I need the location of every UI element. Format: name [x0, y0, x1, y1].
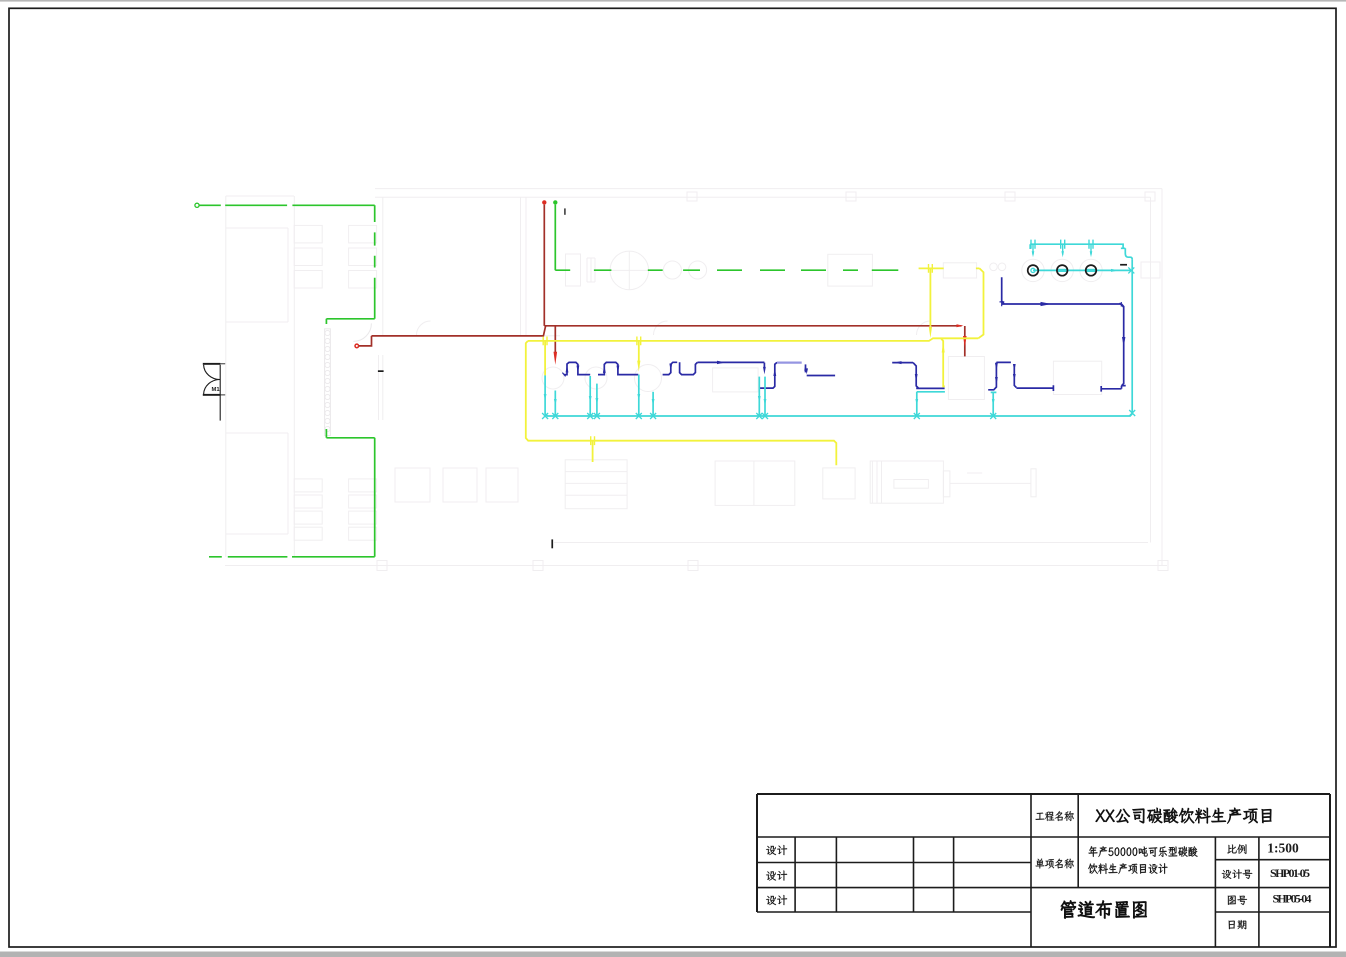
- navy plateau arrow: [717, 361, 726, 364]
- green notch upper horizontal: [326, 318, 374, 320]
- cyan drop 590: [589, 376, 591, 416]
- door symbol M1: [203, 363, 225, 421]
- yellow branch to navy: [941, 338, 945, 386]
- black tick mark lower: [551, 539, 553, 548]
- yellow top junction ticks: [929, 264, 933, 273]
- yellow loop branch ticks: [591, 436, 595, 445]
- yellow loop branch drop: [592, 441, 594, 462]
- navy run2 arrow2: [603, 365, 606, 373]
- faint background floor plan: [225, 189, 1168, 571]
- subproject line1: [1089, 846, 1198, 857]
- tank circle 2: [1057, 265, 1068, 276]
- green building outline right edge lower: [374, 438, 376, 557]
- cyan drop 639: [638, 375, 640, 417]
- green building outline right edge upper (dashed): [374, 205, 376, 318]
- navy run3 arrow: [669, 364, 672, 372]
- yellow main header: [528, 338, 978, 341]
- yellow valve ticks B: [637, 337, 641, 346]
- navy lower run to yellow: [916, 387, 944, 389]
- red main header: [544, 325, 961, 327]
- black minus mark near tanks: [1120, 264, 1127, 266]
- label tuhao: [1228, 896, 1247, 905]
- navy run1 arrow2: [566, 365, 569, 373]
- navy drop at 764: [763, 363, 765, 368]
- cyan tank feed stubs: [1031, 240, 1093, 258]
- cyan tank inner mark 3: [1086, 269, 1095, 272]
- green riser vertical: [554, 205, 556, 271]
- green start marker circle: [195, 203, 199, 207]
- navy downcomer arrow: [1122, 337, 1125, 347]
- label danxiang mingcheng: [1036, 858, 1074, 868]
- green notch vertical (dashed): [325, 319, 327, 438]
- yellow riser mid: [929, 268, 931, 326]
- label bili: [1227, 844, 1246, 854]
- yellow valve ticks A: [543, 337, 547, 346]
- navy bump run 2: [598, 362, 638, 374]
- label gongcheng mingcheng: [1036, 811, 1074, 821]
- subproject line2: [1088, 863, 1167, 874]
- cyan drop 653: [652, 392, 654, 416]
- title block grid: [757, 794, 1330, 947]
- red main header end arrow: [957, 324, 964, 327]
- red drop branch left: [554, 326, 556, 352]
- svg-text:SHP01-05: SHP01-05: [1270, 866, 1310, 880]
- black elevation dash: [378, 370, 384, 372]
- cyan drop 993: [991, 392, 997, 416]
- green building outline top edge (dashed): [200, 204, 375, 206]
- project title: [1096, 808, 1272, 824]
- navy feeder header: [1002, 303, 1122, 305]
- svg-text:M1: M1: [212, 387, 221, 393]
- navy lower run 1016: [1016, 385, 1053, 391]
- navy top plateau right: [996, 362, 1016, 387]
- red pump marker ring: [355, 344, 359, 348]
- svg-text:1:500: 1:500: [1267, 841, 1299, 856]
- cyan bottom main header: [545, 259, 1132, 416]
- cyan drop 759: [758, 377, 760, 416]
- yellow left riser and bottom loop: [526, 341, 837, 465]
- cyan arrow on 545: [544, 394, 547, 401]
- green notch lower horizontal: [326, 437, 374, 439]
- label riqi: [1229, 920, 1247, 929]
- navy bump run 3: [663, 362, 698, 374]
- label sheji 2: [766, 871, 787, 881]
- cyan drop 917: [917, 392, 945, 416]
- top gray strip: [0, 0, 1346, 2]
- navy run1 arrow: [577, 366, 580, 374]
- navy feeder corner tick: [1000, 302, 1005, 306]
- navy jog arrow: [773, 368, 776, 376]
- label sheji 3: [766, 895, 787, 905]
- cyan drop 597: [596, 384, 598, 416]
- cyan tank inner mark 2: [1058, 269, 1067, 272]
- cyan tank header arrow: [1111, 269, 1119, 272]
- navy drop 996: [988, 362, 996, 389]
- navy drop996 arrows: [995, 363, 998, 371]
- navy lower jog: [760, 362, 777, 388]
- cyan right corner mark: [1129, 410, 1135, 416]
- navy run2 arrow: [617, 366, 620, 374]
- cyan tank header junction: [1128, 267, 1134, 273]
- navy right downcomer: [1122, 304, 1124, 386]
- bottom gray bar: [0, 952, 1346, 957]
- tank circle 3: [1086, 265, 1097, 276]
- navy tick arrows: [804, 365, 807, 371]
- gray J tick: [564, 208, 566, 214]
- navy downcomer foot: [1101, 386, 1126, 392]
- yellow branch drop A: [544, 341, 546, 376]
- navy short run with left arrow: [892, 362, 913, 364]
- cyan tank inner mark 1: [1031, 268, 1035, 272]
- label sheji 1: [766, 845, 787, 855]
- label shejihao: [1222, 869, 1252, 879]
- cyan tank header: [1033, 269, 1131, 271]
- svg-text:SHP05-04: SHP05-04: [1273, 892, 1312, 906]
- green building outline bottom edge (dashed): [209, 556, 375, 558]
- navy drop1014 arrow: [1013, 364, 1016, 371]
- yellow right riser: [978, 268, 983, 338]
- navy feeder arrow: [1041, 302, 1052, 306]
- navy long plateau: [697, 361, 764, 363]
- navy downcomer corner tick: [1120, 302, 1124, 308]
- red riser marker circle: [542, 200, 546, 204]
- navy run1 end tick: [562, 373, 565, 377]
- red drop branch right: [964, 326, 966, 356]
- cyan drop 555: [554, 391, 556, 417]
- navy bump run 1: [564, 362, 590, 374]
- navy run right of tick: [807, 375, 835, 377]
- cyan bottom junction marks: [542, 413, 996, 419]
- navy drop 916: [913, 363, 918, 389]
- cyan drop 765: [764, 377, 766, 416]
- red branch to pump: [359, 336, 372, 346]
- navy tick drop: [805, 364, 807, 372]
- navy feeder riser: [1002, 277, 1004, 304]
- tank circle 1: [1028, 265, 1039, 276]
- periwinkle segment: [777, 362, 802, 364]
- drawing title guandao buzhitu: [1061, 900, 1147, 918]
- yellow branch drop B: [638, 341, 640, 361]
- red lower header: [372, 326, 546, 336]
- green riser marker circle: [553, 200, 557, 204]
- yellow top run: [919, 267, 980, 269]
- green dashed pipe run: [555, 269, 898, 271]
- cyan tank top manifold: [1030, 244, 1132, 259]
- red riser vertical: [543, 205, 545, 326]
